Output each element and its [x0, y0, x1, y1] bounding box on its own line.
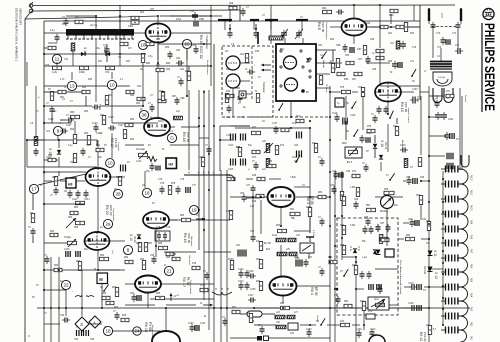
net H103: [404, 307, 410, 309]
junction: [428, 307, 430, 309]
net H54: [429, 135, 446, 137]
resistor R55: [342, 246, 345, 255]
net H89: [269, 178, 281, 180]
svg-text:R67: R67: [112, 287, 117, 289]
wire X7 bottom: [374, 149, 376, 158]
net V5b: [213, 300, 215, 342]
svg-text:R69: R69: [280, 303, 285, 305]
title side rule: [481, 23, 483, 112]
inductor L24: [277, 252, 287, 256]
net H27: [170, 15, 211, 17]
net H95: [327, 324, 340, 326]
capacitor C113b electrolytic: [231, 134, 236, 141]
net V31: [309, 200, 311, 233]
net H9: [296, 196, 330, 198]
junction: [119, 53, 121, 55]
cap group box: [155, 231, 170, 241]
junction: [186, 95, 188, 97]
net V8: [188, 90, 190, 170]
svg-text:X14: X14: [64, 59, 69, 61]
module dot 95: [301, 89, 305, 93]
capacitor C127c: [364, 164, 369, 172]
net H78: [125, 304, 155, 306]
inductor L23: [288, 238, 296, 242]
resistor R44: [376, 49, 384, 52]
net H113: [429, 95, 444, 97]
svg-text:5,6M: 5,6M: [362, 257, 367, 259]
svg-text:C47: C47: [250, 205, 255, 208]
capacitor C98: [377, 106, 382, 114]
pentode Rö16b PCF80: [143, 212, 169, 229]
capacitor C62a: [254, 30, 259, 38]
svg-text:C73: C73: [436, 33, 441, 35]
svg-text:C: C: [213, 171, 215, 175]
junction: [270, 20, 272, 22]
net V23: [26, 140, 28, 167]
svg-text:Rö11: Rö11: [470, 190, 472, 196]
svg-text:R61: R61: [108, 95, 113, 97]
svg-text:C82: C82: [332, 171, 337, 173]
pentode Rö4 EF85: [270, 277, 297, 296]
junction: [442, 308, 444, 310]
capacitor C90: [410, 219, 415, 227]
resistor R63: [87, 136, 90, 145]
wire: [44, 47, 47, 49]
net H101: [404, 286, 410, 288]
svg-text:C96: C96: [150, 255, 155, 257]
capacitor C109: [81, 148, 86, 156]
junction: [442, 211, 444, 213]
svg-text:18: 18: [144, 191, 150, 196]
inductor L28: [276, 325, 286, 329]
resistor R69b: [281, 306, 290, 309]
junction: [329, 196, 331, 198]
net H69: [110, 176, 125, 178]
test point 24: [133, 327, 141, 335]
wire tp16 down: [142, 63, 144, 106]
junction: [329, 225, 331, 227]
junction: [213, 125, 215, 127]
svg-text:C93: C93: [60, 315, 65, 317]
svg-text:R86: R86: [318, 192, 323, 194]
socket contact stack 9: [441, 284, 458, 291]
net V18: [58, 257, 60, 342]
net H68: [76, 180, 85, 182]
capacitor C88: [407, 177, 412, 185]
svg-text:38: 38: [141, 113, 147, 118]
net H100: [389, 304, 398, 306]
svg-text:220k: 220k: [176, 19, 182, 21]
svg-text:C104: C104: [238, 281, 244, 283]
junction: [379, 26, 381, 28]
hook terminal: [29, 9, 33, 13]
svg-text:C69: C69: [128, 24, 133, 28]
test point 21: [164, 266, 173, 275]
junction: [65, 307, 67, 309]
capacitor C56b electrolytic: [296, 260, 302, 267]
wire X15 bottom: [58, 157, 60, 167]
shield cap bar: [265, 19, 278, 21]
svg-text:C75: C75: [158, 179, 163, 181]
resistor R21: [53, 66, 62, 69]
triode Rö20c ECC82: [85, 232, 110, 250]
wire Bu5 down: [308, 253, 310, 259]
net H74: [125, 283, 135, 285]
net V16: [461, 96, 463, 170]
resistor R35: [336, 59, 339, 68]
test point 18b: [103, 326, 112, 335]
svg-text:50µ: 50µ: [84, 249, 89, 251]
capacitor C96: [152, 256, 157, 264]
capacitor C121c: [31, 228, 36, 236]
wire R59 down: [420, 205, 422, 220]
capacitor C77 trimmer: [455, 48, 463, 54]
svg-text:C60: C60: [176, 50, 181, 52]
net V10: [329, 86, 331, 342]
svg-text:C103: C103: [416, 96, 419, 102]
svg-text:C107: C107: [118, 125, 124, 127]
capacitor C144 electrolytic: [121, 165, 126, 172]
capacitor C115 electrolytic: [231, 159, 236, 166]
inner frame left vertical: [43, 21, 45, 130]
potentiometer Kontrast: [139, 151, 148, 159]
resistor R80b: [31, 214, 34, 223]
resistor R73c: [352, 174, 360, 177]
svg-text:C110: C110: [136, 161, 142, 163]
svg-text:9: 9: [57, 129, 60, 134]
svg-text:R95: R95: [48, 155, 53, 157]
capacitor C134: [320, 268, 325, 276]
top wire C: [25, 16, 158, 19]
svg-text:R65: R65: [102, 293, 107, 295]
wire tp15 lead: [186, 49, 188, 60]
wire left mid: [97, 140, 99, 167]
svg-text:C67: C67: [358, 59, 363, 61]
resistor R60c: [58, 90, 66, 93]
resistor R81b: [50, 233, 58, 236]
wire R71b down: [363, 311, 365, 330]
wire C107 down: [111, 133, 113, 158]
junction: [442, 297, 444, 299]
svg-text:Rö4: Rö4: [470, 293, 472, 298]
socket loop right: [461, 155, 469, 167]
test point 19: [189, 205, 198, 214]
heater loop 8: [458, 272, 468, 287]
resistor R78c: [192, 266, 200, 269]
svg-text:C61: C61: [240, 54, 245, 56]
resistor R22: [80, 66, 89, 69]
svg-text:R85: R85: [156, 293, 161, 295]
capacitor C122c: [45, 256, 50, 264]
capacitor C83 electrolytic: [339, 172, 343, 178]
svg-text:R82: R82: [124, 257, 129, 259]
net H55: [429, 155, 445, 157]
net H36: [170, 144, 199, 146]
net H45: [316, 73, 330, 75]
net H22: [44, 269, 120, 271]
junction: [341, 215, 343, 217]
cable break symbol: [75, 296, 94, 298]
junction: [428, 8, 430, 10]
capacitor C103: [410, 97, 418, 104]
inductor L16: [396, 41, 400, 49]
delay line tap: [99, 36, 101, 40]
svg-text:Bildmitte: Bildmitte: [322, 60, 325, 69]
net H12: [161, 283, 214, 285]
svg-text:M: M: [94, 269, 96, 271]
svg-text:Peak: Peak: [272, 235, 278, 237]
svg-text:Schall: Schall: [316, 315, 318, 321]
capacitor C78: [157, 232, 161, 240]
svg-text:R67: R67: [256, 259, 261, 261]
svg-text:16: 16: [140, 43, 146, 48]
wire to diamond: [81, 270, 83, 316]
net H2: [44, 85, 130, 87]
svg-text:C59: C59: [45, 65, 50, 67]
svg-text:R71: R71: [292, 123, 297, 125]
capacitor C111b electrolytic: [156, 166, 160, 171]
capacitor C115b: [363, 226, 368, 234]
resistor R84b: [172, 257, 180, 260]
svg-text:H9: H9: [169, 163, 174, 167]
wire M down: [101, 284, 103, 308]
svg-text:47k: 47k: [105, 70, 110, 74]
svg-text:C122: C122: [72, 199, 78, 201]
wire C74 up: [460, 21, 462, 24]
svg-text:Bu 5/6: Bu 5/6: [264, 242, 272, 245]
capacitor C128: [409, 305, 417, 311]
wire L14 lead: [72, 51, 74, 66]
resistor R71b: [362, 302, 365, 311]
capacitor C59 electrolytic: [194, 22, 198, 27]
net H94: [300, 324, 316, 326]
svg-text:R89: R89: [166, 257, 171, 259]
wire tp9 down: [57, 136, 59, 140]
Philips shield logo: [483, 8, 494, 19]
wire: [396, 118, 398, 124]
svg-text:R24: R24: [140, 12, 145, 14]
wire Rö3 down: [280, 207, 282, 226]
wire X16 down: [380, 162, 382, 171]
trimmer arrow C63: [280, 29, 288, 39]
resistor R82: [70, 211, 78, 214]
junction: [198, 125, 200, 127]
resistor R48: [257, 177, 265, 180]
shield cap lead: [253, 20, 255, 30]
wire Rö16b down: [155, 229, 157, 257]
svg-text:R49: R49: [252, 201, 257, 203]
capacitor C76b: [176, 186, 181, 194]
svg-text:R77: R77: [446, 91, 451, 93]
svg-text:X 9: X 9: [349, 246, 353, 251]
junction: [26, 139, 28, 141]
resistor R74: [252, 150, 260, 153]
socket contact stack 11: [441, 313, 458, 320]
svg-text:C88: C88: [406, 177, 411, 179]
svg-text:R32: R32: [226, 91, 231, 93]
svg-text:R85: R85: [306, 207, 311, 209]
curly brace ABC: [212, 292, 232, 295]
resistor R54: [342, 226, 345, 235]
net H41: [330, 91, 341, 93]
capacitor C110: [150, 163, 155, 171]
svg-text:1,5M: 1,5M: [350, 187, 355, 189]
socket contact stack 12: [441, 327, 458, 334]
svg-text:R27: R27: [126, 61, 131, 63]
module pin: [280, 85, 282, 87]
svg-text:R79: R79: [200, 285, 205, 287]
resistor R24: [131, 16, 139, 19]
net H96: [352, 324, 360, 326]
svg-text:R29: R29: [229, 3, 234, 5]
svg-text:C125: C125: [64, 249, 70, 251]
resistor R107: [428, 326, 431, 335]
capacitor C125c: [254, 162, 259, 170]
junction: [282, 307, 284, 309]
svg-text:Rö10: Rö10: [470, 205, 472, 211]
svg-text:R72: R72: [296, 116, 301, 118]
resistor R25: [131, 21, 139, 24]
capacitor C126 electrolytic: [76, 251, 80, 257]
resistor R89: [166, 252, 174, 255]
potentiometer Helligkeit: [68, 239, 77, 247]
junction: [420, 180, 422, 182]
net V19: [43, 130, 45, 342]
net V30: [413, 5, 415, 21]
wire module to screen: [290, 101, 292, 117]
svg-text:R37: R37: [352, 79, 357, 81]
wire R60-R62: [74, 121, 76, 134]
capacitor C107c: [60, 129, 68, 134]
resistor R37: [354, 72, 362, 75]
net H52: [420, 91, 429, 93]
junction: [280, 225, 282, 227]
resistor R87: [144, 243, 147, 252]
svg-text:17: 17: [31, 187, 37, 192]
capacitor C105: [245, 282, 250, 290]
net H53: [429, 116, 438, 118]
svg-text:Bildf.: Bildf.: [342, 143, 347, 145]
svg-text:H: H: [188, 171, 190, 175]
svg-text:G: G: [198, 171, 200, 175]
resistor R67c: [115, 288, 118, 297]
pentode Rö3 EF85: [268, 187, 295, 207]
resistor R61: [105, 96, 108, 105]
module pin: [309, 70, 311, 72]
capacitor C116b: [369, 226, 374, 234]
wire coil up: [440, 48, 442, 61]
switch S11: [295, 155, 300, 163]
capacitor C99: [384, 106, 389, 114]
resistor R63b: [100, 257, 109, 260]
capacitor C132: [260, 326, 265, 334]
net H67: [60, 180, 66, 182]
junction: [157, 62, 159, 64]
module pin: [280, 66, 282, 68]
junction: [442, 178, 444, 180]
svg-text:R86: R86: [136, 243, 141, 245]
coil former outline: [433, 72, 452, 86]
net H25: [44, 53, 66, 55]
capacitor C64b electrolytic: [297, 151, 302, 158]
junction: [50, 307, 52, 309]
svg-text:R73: R73: [280, 145, 285, 147]
net H33: [112, 122, 158, 124]
trimmer box Bu5: [300, 243, 314, 253]
net H73: [98, 269, 125, 271]
resistor R62: [73, 135, 76, 144]
junction: [213, 307, 215, 309]
svg-text:R76: R76: [393, 126, 398, 128]
capacitor C114: [445, 132, 450, 140]
svg-text:R59: R59: [416, 195, 421, 197]
junction: [355, 256, 357, 258]
diode X13: [106, 52, 110, 56]
diamond junction 3: [75, 317, 89, 331]
resistor R65: [126, 90, 134, 93]
socket loop Bu1: [433, 88, 442, 103]
junction (bus): [336, 288, 339, 291]
capacitor C60: [168, 51, 173, 59]
capacitor C121d electrolytic: [377, 284, 381, 290]
net H75: [44, 323, 60, 325]
junction: [329, 307, 331, 309]
box H9: [166, 158, 177, 169]
net V15: [459, 88, 461, 170]
capacitor C116 electrolytic: [241, 159, 246, 166]
svg-text:C63: C63: [318, 45, 323, 47]
junction: [58, 269, 60, 271]
capacitor C112: [441, 112, 447, 120]
svg-text:28: 28: [115, 192, 121, 197]
capacitor C141: [150, 104, 155, 112]
svg-text:C60: C60: [176, 58, 181, 60]
capacitor C129c: [400, 148, 408, 153]
resistor R68: [125, 123, 133, 126]
capacitor C106b: [248, 274, 256, 279]
svg-text:R26: R26: [165, 47, 170, 49]
pentode-triode Rö8 PCF80: [342, 19, 367, 36]
capacitor C127 electrolytic: [417, 284, 421, 290]
svg-text:Bu5: Bu5: [266, 249, 271, 251]
heater loop 9: [458, 287, 468, 301]
module pin: [300, 50, 302, 52]
capacitor C68: [366, 56, 371, 64]
resistor R72c: [296, 119, 304, 122]
wire tp22 down: [65, 290, 67, 316]
wire: [106, 44, 108, 47]
svg-text:R51: R51: [290, 209, 295, 211]
tube bottom-left partial: [369, 335, 385, 342]
svg-text:C106: C106: [98, 104, 101, 110]
resistor R83: [76, 221, 85, 224]
svg-text:C101: C101: [200, 323, 206, 325]
svg-text:R80: R80: [52, 177, 57, 179]
junction: [43, 307, 45, 309]
svg-text:BF1: BF1: [280, 48, 285, 51]
svg-text:R72: R72: [368, 311, 373, 313]
switch S6: [353, 129, 358, 137]
svg-text:Rö 16: Rö 16: [183, 233, 187, 243]
net H110: [158, 43, 211, 45]
wire Rö17 down: [147, 293, 149, 308]
diode X16 OA72: [379, 155, 383, 159]
test point 8: [123, 245, 132, 254]
svg-text:R64: R64: [76, 261, 81, 263]
capacitor C121 electrolytic: [447, 153, 453, 160]
resistor R81c: [232, 310, 240, 313]
junction: [329, 116, 331, 118]
